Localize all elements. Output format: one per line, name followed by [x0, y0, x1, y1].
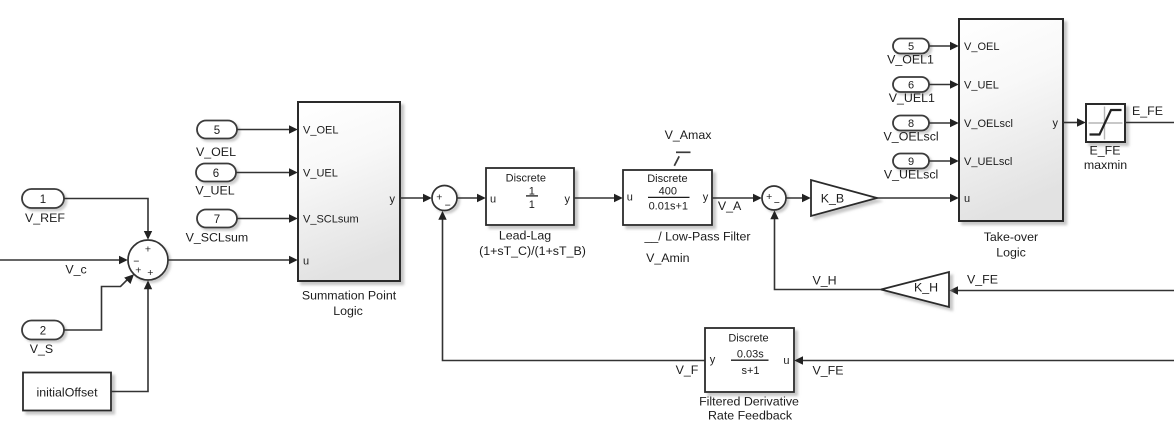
svg-text:+: + [135, 265, 141, 277]
wire Take-over y to saturation E_FE [1063, 118, 1086, 126]
inport 7 [197, 210, 237, 228]
svg-text:u: u [490, 193, 496, 205]
svg-text:V_FE: V_FE [813, 364, 844, 378]
block Lead-Lag (Discrete 1/1) [486, 168, 574, 225]
wire inport 7 to V_SCLsum [237, 214, 298, 222]
svg-text:s+1: s+1 [741, 365, 759, 377]
svg-text:u: u [783, 355, 789, 367]
svg-text:V_UEL: V_UEL [303, 168, 338, 180]
caption Take-over Logic [984, 230, 1038, 260]
svg-text:V_A: V_A [718, 199, 742, 213]
inport 5 (upper right) [893, 39, 929, 54]
wire sum3 to gain K_B [786, 194, 811, 202]
svg-text:V_F: V_F [676, 363, 699, 377]
saturation block E_FE maxmin [1086, 104, 1125, 142]
svg-text:−: − [774, 197, 780, 209]
svg-text:6: 6 [213, 168, 219, 180]
wire Summation Point Logic y to sum2 [400, 194, 432, 202]
inport 1 [22, 189, 64, 208]
wire K_B to Take-over u [877, 194, 959, 202]
inport 5 [197, 121, 237, 139]
wire inport 6 to V_UEL [236, 168, 298, 176]
block Filtered Derivative (Discrete 0.03s/s+1) [705, 328, 794, 392]
subsystem Take-over Logic [959, 19, 1063, 221]
svg-text:8: 8 [908, 118, 914, 130]
wire from inport 1 to summing junction top [64, 199, 152, 240]
sum block 2 [432, 186, 457, 212]
svg-text:Rate Feedback: Rate Feedback [708, 409, 793, 423]
svg-text:V_S: V_S [30, 342, 53, 356]
svg-text:__/ Low-Pass Filter: __/ Low-Pass Filter [643, 230, 750, 244]
wire K_H to sum3 bottom, label V_H [770, 210, 881, 289]
wire V_FE from right edge into gain K_H [949, 273, 1174, 295]
svg-text:+: + [436, 191, 442, 203]
svg-text:Discrete: Discrete [647, 173, 687, 185]
wire saturation to right edge, label E_FE [1125, 104, 1174, 123]
svg-text:5: 5 [908, 41, 914, 53]
sum block 3 [762, 186, 786, 210]
svg-text:0.03s: 0.03s [737, 349, 764, 361]
svg-text:6: 6 [908, 80, 914, 92]
svg-text:400: 400 [659, 185, 677, 197]
wire sum2 to Lead-Lag u [457, 194, 486, 202]
svg-text:V_OEL: V_OEL [303, 125, 338, 137]
svg-text:V_SCLsum: V_SCLsum [186, 231, 249, 245]
caption Summation Point Logic [302, 289, 397, 319]
svg-text:y: y [710, 354, 716, 366]
svg-text:V_OELscl: V_OELscl [884, 130, 939, 144]
block initialOffset [23, 373, 111, 411]
svg-text:7: 7 [214, 214, 220, 226]
svg-text:u: u [964, 193, 970, 205]
wire inport 9 to Take-over V_UELscl [929, 157, 959, 165]
svg-text:Discrete: Discrete [728, 333, 768, 345]
svg-text:V_H: V_H [812, 274, 836, 288]
svg-text:Filtered Derivative: Filtered Derivative [699, 395, 799, 409]
svg-text:V_c: V_c [65, 263, 86, 277]
svg-text:Logic: Logic [996, 246, 1026, 260]
svg-text:y: y [390, 194, 396, 206]
inport 9 [893, 154, 929, 169]
svg-text:K_H: K_H [914, 281, 938, 295]
svg-text:V_OELscl: V_OELscl [964, 118, 1013, 130]
svg-text:Logic: Logic [333, 304, 363, 318]
wire V_F feedback from Filtered Derivative to sum2 bottom [438, 211, 705, 377]
svg-text:0.01s+1: 0.01s+1 [649, 200, 688, 212]
svg-text:Lead-Lag: Lead-Lag [499, 229, 551, 243]
saturation upper-limit glyph [674, 152, 690, 166]
svg-text:u: u [303, 256, 309, 268]
wire inport 8 to Take-over V_OELscl [929, 119, 959, 127]
svg-text:V_OEL1: V_OEL1 [887, 53, 934, 67]
svg-text:K_B: K_B [821, 192, 844, 206]
wire from inport 2 to summing junction (diagonal entry) [64, 274, 134, 330]
svg-text:V_UELscl: V_UELscl [964, 156, 1012, 168]
svg-text:Discrete: Discrete [506, 173, 546, 185]
wire inport 6 to Take-over V_UEL [929, 80, 959, 88]
svg-text:maxmin: maxmin [1084, 158, 1127, 172]
inport 6 [196, 164, 236, 182]
svg-text:V_UEL: V_UEL [964, 80, 999, 92]
subsystem Summation Point Logic [298, 102, 400, 281]
caption Lead-Lag [479, 229, 586, 259]
svg-text:V_Amax: V_Amax [665, 128, 713, 142]
svg-text:V_Amin: V_Amin [646, 251, 689, 265]
wire sum to Summation Point Logic u input [168, 256, 298, 264]
svg-text:Take-over: Take-over [984, 230, 1038, 244]
sum block (summing junction) [128, 240, 168, 280]
svg-text:V_OEL: V_OEL [196, 145, 236, 159]
svg-text:V_UELscl: V_UELscl [884, 168, 938, 182]
wire inport 5 to Take-over V_OEL [929, 42, 959, 50]
svg-text:E_FE: E_FE [1132, 104, 1163, 118]
svg-text:9: 9 [908, 156, 914, 168]
svg-text:initialOffset: initialOffset [36, 386, 98, 400]
svg-text:2: 2 [40, 326, 46, 338]
svg-text:V_UEL: V_UEL [195, 184, 234, 198]
inport 2 [22, 321, 64, 340]
svg-text:E_FE: E_FE [1090, 144, 1121, 158]
block Low-Pass Filter (Discrete 400/0.01s+1) [623, 170, 712, 225]
svg-text:1: 1 [529, 199, 535, 211]
wire Low-Pass y to sum3, label V_A [712, 194, 762, 213]
svg-text:y: y [565, 193, 571, 205]
svg-text:1: 1 [40, 194, 46, 206]
svg-text:y: y [1053, 118, 1059, 130]
svg-text:+: + [145, 244, 151, 256]
svg-text:+: + [766, 191, 772, 203]
svg-text:V_UEL1: V_UEL1 [889, 91, 935, 105]
gain K_H [881, 272, 949, 307]
inport 6 (right) [893, 77, 929, 92]
svg-text:Summation Point: Summation Point [302, 289, 397, 303]
svg-text:V_FE: V_FE [967, 273, 998, 287]
svg-text:+: + [147, 267, 153, 279]
svg-text:V_REF: V_REF [25, 211, 65, 225]
caption E_FE maxmin [1084, 144, 1127, 173]
svg-text:V_OEL: V_OEL [964, 41, 999, 53]
svg-text:y: y [703, 191, 709, 203]
wire V_c input from left edge [0, 256, 128, 264]
wire V_FE from right edge into Filtered Derivative u [794, 356, 1174, 377]
svg-text:V_SCLsum: V_SCLsum [303, 214, 359, 226]
inport 8 [893, 116, 929, 131]
svg-text:−: − [445, 200, 451, 212]
wire inport 5 to V_OEL [237, 125, 298, 133]
svg-text:5: 5 [214, 125, 220, 137]
wire from initialOffset to summing junction bottom [111, 280, 152, 391]
wire Lead-Lag y to Low-Pass u [574, 194, 623, 202]
svg-text:(1+sT_C)/(1+sT_B): (1+sT_C)/(1+sT_B) [479, 244, 586, 258]
caption Filtered Derivative Rate Feedback [699, 395, 799, 423]
gain K_B [811, 180, 877, 216]
svg-text:u: u [627, 191, 633, 203]
